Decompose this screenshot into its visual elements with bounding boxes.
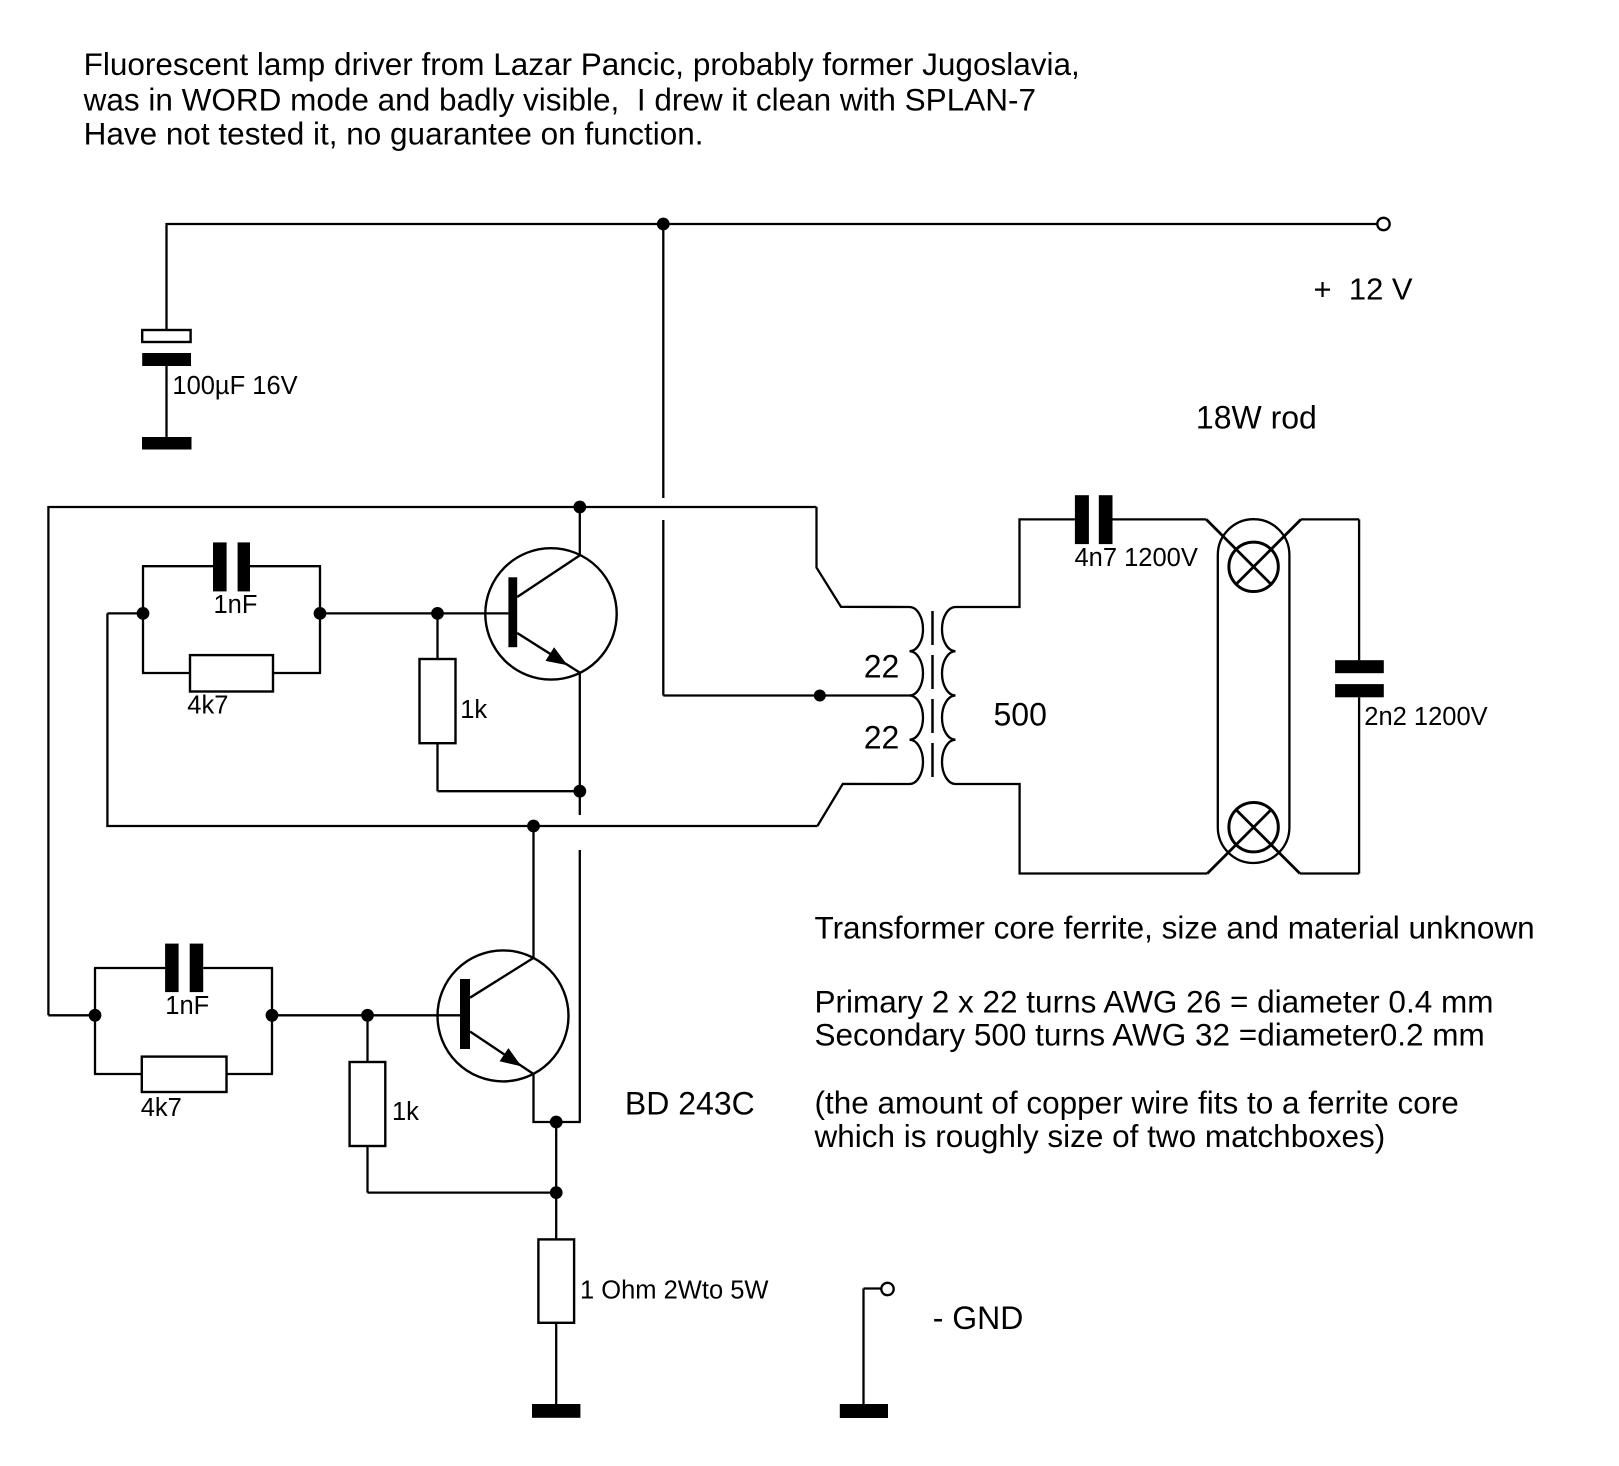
wire: Q2 rail to primary bottom (diagonal) (817, 784, 909, 826)
wire: 1k (lower) bottom lead (366, 1146, 368, 1193)
terminal: +12V open circle (1377, 218, 1389, 230)
capacitor C1 100uF 16V (electrolytic, top plate hollow) (142, 330, 191, 366)
svg-text:Fluorescent lamp driver from L: Fluorescent lamp driver from Lazar Panci… (84, 46, 1080, 82)
lamp LA1 18W tube outline (1218, 519, 1290, 863)
svg-text:which is roughly size of two m: which is roughly size of two matchboxes) (814, 1118, 1386, 1154)
wire: 1k (upper) top lead (436, 613, 438, 659)
wire: rail to primary top (corner+diagonal) (817, 507, 910, 607)
wire: secondary top to C4 (956, 519, 1075, 607)
wire: left outer vertical into lower RC network (48, 1014, 95, 1016)
svg-text:+ 12 V: + 12 V (1314, 272, 1413, 307)
svg-text:1k: 1k (392, 1098, 419, 1126)
ground: below R 1 Ohm (532, 1404, 580, 1418)
node: Q1 collector junction on rail (573, 501, 586, 514)
wire: center tap from +12V drop (663, 694, 909, 696)
svg-text:Secondary 500 turns AWG 32 =di: Secondary 500 turns AWG 32 =diameter0.2 … (815, 1017, 1485, 1053)
svg-text:2n2 1200V: 2n2 1200V (1364, 703, 1487, 731)
svg-text:500: 500 (994, 697, 1047, 733)
wire: lamp top-right to 2n2 branch (1301, 518, 1359, 520)
lower RC network frame wires (94, 968, 273, 1074)
lamp bottom electrode X stroke (from left wire) (1207, 810, 1271, 874)
node: lower network right junction (266, 1009, 279, 1022)
wire: C5 down to lamp bottom-right (1358, 697, 1360, 873)
lamp bottom electrode circle (1229, 803, 1278, 852)
lamp top electrode X stroke (from left wire) (1206, 519, 1271, 584)
node: junction top rail / center-tap feed (657, 218, 670, 231)
wire: Q2 base wire (272, 1014, 460, 1016)
node: upper network left junction (137, 607, 150, 620)
transistor Q2 BD 243C (438, 950, 569, 1081)
transformer core (dashed) (931, 611, 934, 777)
ground: below C1 (142, 437, 192, 450)
wire: 1k bottom to Q1 emitter (438, 790, 580, 792)
wire: Q2 collector rail (106, 825, 817, 827)
svg-text:Have not tested it, no guarant: Have not tested it, no guarantee on func… (84, 116, 704, 152)
wire: GND terminal stub (864, 1287, 882, 1289)
wire: emitter bus upper part (jumps over Q2 collector rail) (579, 791, 581, 815)
node: lower network left junction (89, 1009, 102, 1022)
transformer T1 primary winding 2 x 22 (910, 607, 924, 784)
svg-text:4k7: 4k7 (141, 1094, 182, 1122)
svg-text:22: 22 (864, 720, 900, 756)
wire: Q2 emitter down (532, 1074, 534, 1123)
node: Q1 base / 1k junction (431, 607, 444, 620)
wire: emitter bus lower part (579, 850, 581, 1122)
svg-text:18W rod: 18W rod (1196, 400, 1317, 436)
svg-text:1 Ohm 2Wto 5W: 1 Ohm 2Wto 5W (580, 1277, 768, 1305)
svg-text:1nF: 1nF (214, 591, 258, 619)
wire: GND drop (862, 1289, 864, 1405)
wire: R 1 Ohm to ground (555, 1323, 557, 1405)
wire: Q1 collector rail (48, 506, 816, 508)
wire: Q1 emitter down to junction (579, 673, 581, 792)
node: Q2 base / 1k junction (361, 1009, 374, 1022)
svg-text:was in WORD mode and badly vis: was in WORD mode and badly visible, I dr… (83, 81, 1036, 117)
wire: C4 to lamp top-left (1113, 518, 1207, 520)
wire: 1k (lower) top lead (366, 1015, 368, 1062)
wire: top-left corner drop to C1 (165, 223, 167, 331)
svg-text:(the amount of copper wire fit: (the amount of copper wire fits to a fer… (815, 1085, 1459, 1121)
node: 1k / 1 Ohm junction (550, 1186, 563, 1199)
terminal: -GND open circle (881, 1283, 893, 1295)
resistor R 4k7 (upper) (190, 655, 273, 691)
wire: junction to R 1 Ohm (555, 1193, 557, 1240)
svg-text:Transformer core ferrite, size: Transformer core ferrite, size and mater… (815, 910, 1535, 946)
upper RC network frame wires (142, 566, 321, 673)
resistor R 1k (upper) (420, 659, 456, 743)
note text block (814, 910, 1535, 1154)
wire: 1k (upper) bottom lead (436, 743, 438, 791)
svg-text:4n7 1200V: 4n7 1200V (1075, 544, 1198, 572)
svg-text:BD 243C: BD 243C (625, 1086, 755, 1122)
svg-text:4k7: 4k7 (187, 691, 228, 719)
wire: inner-left vertical (upper RC network to Q2 collector rail) (106, 613, 108, 827)
wire: 1k bottom to emitter bus (368, 1191, 557, 1193)
resistor R 1 Ohm 2W to 5W (538, 1239, 574, 1322)
wire: bottom-right horizontal (1300, 872, 1359, 874)
wire: +12V top rail (167, 223, 1378, 225)
wire: right branch down to C5 (1358, 519, 1360, 660)
svg-text:1k: 1k (460, 696, 487, 724)
transistor Q1 (485, 548, 616, 679)
resistor R 4k7 (lower) (142, 1057, 227, 1092)
wire: Q2 collector up to rail (532, 826, 534, 958)
capacitor C2 1nF (upper) (213, 542, 250, 591)
capacitor C4 4n7 1200V (1075, 495, 1113, 544)
node: emitters junction (550, 1116, 563, 1129)
lamp top electrode X stroke (from right wire) (1236, 519, 1301, 584)
lamp top electrode circle (1229, 542, 1278, 591)
capacitor C3 1nF (lower) (165, 944, 203, 993)
node: Q2 collector junction on rail (527, 820, 540, 833)
capacitor C5 2n2 1200V (1335, 660, 1384, 697)
transformer T1 secondary winding 500 (942, 607, 956, 784)
lamp bottom electrode X stroke (from right wire) (1236, 810, 1300, 874)
wire: Q1 base wire (320, 612, 508, 614)
svg-text:- GND: - GND (933, 1300, 1024, 1336)
wire: stub from inner-left vertical to upper RC network (107, 612, 143, 614)
svg-text:22: 22 (864, 649, 900, 685)
svg-text:100µF 16V: 100µF 16V (172, 372, 297, 400)
node: center tap wire dot (814, 690, 826, 702)
wire: C1 to ground (165, 366, 167, 438)
wire: emitters junction down (555, 1122, 557, 1193)
wire: +12V drop lower part (662, 520, 664, 696)
wire: secondary bottom to lamp bottom-left (956, 784, 1208, 874)
wire: Q1 collector up to rail (579, 507, 581, 555)
wire: left outer vertical (collector rail to lower RC network) (47, 506, 49, 1015)
node: upper network right junction (314, 607, 327, 620)
ground: GND terminal bar (840, 1404, 888, 1418)
resistor R 1k (lower) (350, 1062, 386, 1146)
wire: emitter tie bar (533, 1121, 581, 1123)
wire: +12V drop to transformer center tap (upper part, jumps over Q1 rail) (662, 224, 664, 498)
node: Q1 emitter junction (573, 785, 586, 798)
svg-text:1nF: 1nF (165, 992, 209, 1020)
svg-text:Primary 2 x 22 turns AWG 26 =: Primary 2 x 22 turns AWG 26 = diameter 0… (815, 983, 1494, 1019)
title text block (83, 46, 1080, 152)
